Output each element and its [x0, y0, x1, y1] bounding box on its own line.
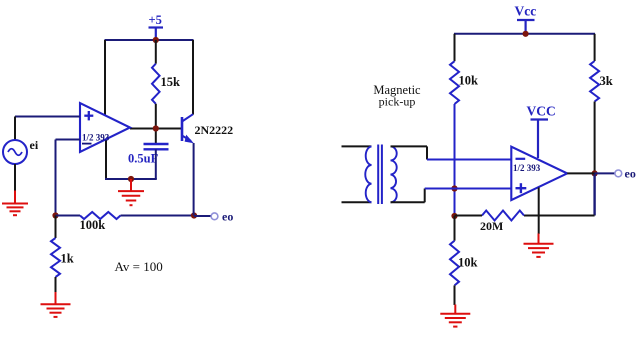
svg-text:20M: 20M: [480, 219, 503, 233]
svg-text:3k: 3k: [600, 74, 613, 88]
svg-text:2N2222: 2N2222: [195, 123, 234, 137]
svg-text:10k: 10k: [458, 256, 478, 270]
svg-text:Av = 100: Av = 100: [115, 259, 163, 274]
svg-text:VCC: VCC: [527, 104, 556, 119]
svg-text:1k: 1k: [61, 252, 74, 266]
svg-text:1/2 393: 1/2 393: [513, 163, 541, 173]
svg-text:0.5uF: 0.5uF: [128, 152, 159, 166]
svg-text:10k: 10k: [459, 74, 479, 88]
svg-text:eo: eo: [625, 167, 636, 181]
svg-text:15k: 15k: [161, 75, 181, 89]
svg-text:Vcc: Vcc: [515, 4, 537, 19]
svg-text:100k: 100k: [80, 218, 106, 232]
svg-text:+5: +5: [149, 13, 162, 27]
svg-text:ei: ei: [30, 138, 39, 152]
svg-text:eo: eo: [222, 210, 233, 224]
svg-text:1/2 393: 1/2 393: [82, 133, 110, 143]
svg-text:pick-up: pick-up: [379, 95, 416, 109]
